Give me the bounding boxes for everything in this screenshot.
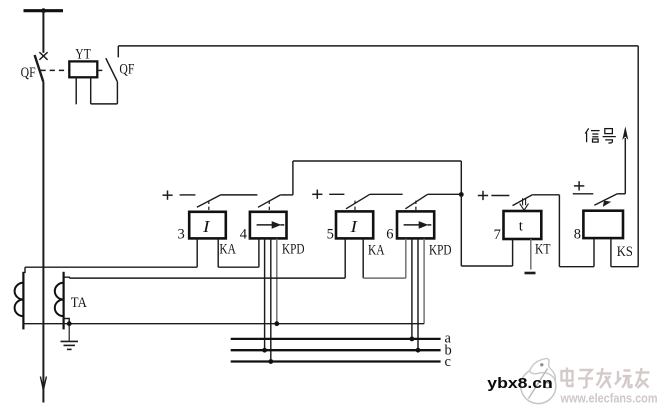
svg-text:YT: YT bbox=[75, 47, 91, 63]
wire: relay4 lead to return line bbox=[276, 239, 278, 324]
junction dot ground node bbox=[67, 321, 72, 326]
svg-text:KPD: KPD bbox=[282, 242, 305, 258]
wire: relay6 lead to return line bbox=[423, 239, 425, 324]
wire: relay4 left lead bbox=[258, 239, 260, 268]
wire: TA line2 jog to coil2 bbox=[64, 276, 70, 279]
svg-text:KA: KA bbox=[368, 243, 385, 259]
junction dot b-phase relay6 bbox=[416, 348, 421, 353]
svg-text:KA: KA bbox=[219, 242, 236, 258]
svg-text:TA: TA bbox=[71, 295, 87, 311]
label KA (relay 3) bbox=[219, 242, 236, 258]
wire: KT feed drop from junction bbox=[460, 195, 462, 267]
ground symbol bbox=[61, 324, 79, 350]
contact KPD4 blade bbox=[258, 195, 280, 207]
trip coil YT box bbox=[69, 61, 97, 77]
contact KS8 blade bbox=[594, 194, 617, 206]
label 3 bbox=[178, 227, 185, 243]
label I in KA5 bbox=[349, 217, 358, 236]
dashed link contact3 to relay 3 bbox=[208, 201, 210, 212]
svg-text:t: t bbox=[519, 219, 524, 235]
current transformer TA coil 2 bar bbox=[62, 272, 64, 330]
contact KPD6 blade bbox=[405, 194, 427, 209]
wire: bus vertical lower segment bbox=[42, 82, 44, 403]
wire: KS8 right lead bbox=[610, 238, 612, 266]
wire: fixed lead of contact KA3 bbox=[180, 194, 196, 196]
wire: KT7 right lead to minus bbox=[530, 239, 532, 270]
junction dot x461 bbox=[459, 192, 464, 197]
svg-text:c: c bbox=[445, 354, 451, 370]
label I in KA3 bbox=[202, 217, 211, 236]
junction dot b-phase relay4 bbox=[262, 348, 267, 353]
label t in KT7 bbox=[519, 219, 524, 235]
svg-text:KT: KT bbox=[535, 241, 551, 257]
breaker X mark on QF bbox=[39, 52, 47, 60]
label 4 bbox=[240, 227, 248, 243]
label 信号 (signal) char 信 bbox=[585, 128, 599, 142]
label 8 bbox=[574, 226, 581, 242]
relay KS8 box bbox=[583, 211, 623, 238]
relay KPD6 box bbox=[397, 211, 434, 238]
wire: coil2 bottom jog to ground node bbox=[64, 319, 70, 324]
wire: fixed lead of contact KT7 bbox=[491, 195, 509, 197]
arrow symbol in KPD4 bbox=[257, 221, 285, 229]
wire: TA return line bbox=[23, 323, 425, 325]
label 6 bbox=[386, 227, 393, 243]
phase line b bbox=[231, 349, 441, 351]
wire: KS8 left lead bbox=[593, 238, 595, 266]
relay KA3 box bbox=[189, 212, 226, 239]
wire: relay4 lead to phase b bbox=[264, 239, 266, 351]
minus terminal under KT7 bbox=[525, 272, 536, 275]
wire: contact KA3 to contact KPD4 bbox=[221, 194, 258, 196]
phase line c bbox=[231, 360, 441, 362]
wire: YT loop bottom bbox=[91, 103, 118, 105]
wire: KT7 left lead bbox=[512, 239, 514, 266]
arrow symbol in KPD6 bbox=[404, 221, 432, 229]
wire: contact KPD6 to junction bbox=[428, 193, 462, 195]
dashed link QF to YT bbox=[41, 69, 69, 71]
svg-text:ybx8.cn: ybx8.cn bbox=[487, 375, 553, 392]
dashed link YT to QF aux contact bbox=[98, 69, 106, 71]
wire: right rail bottom to KS bbox=[611, 266, 638, 268]
wire: contact KPD4 to riser bbox=[280, 194, 293, 196]
wire: U link relay5-relay6 bbox=[363, 277, 406, 279]
wire: KT feed bottom bbox=[461, 265, 512, 267]
wire: relay6 left lead bbox=[405, 239, 407, 279]
plus terminal (contact 8) bbox=[574, 181, 584, 190]
wire: right rail vertical bbox=[637, 46, 639, 267]
elecfans logo ring dot bbox=[545, 383, 550, 388]
breaker QF blade bbox=[35, 55, 44, 82]
wire: fixed lead of contact KA5 bbox=[329, 193, 344, 195]
wire: relay5 left lead bbox=[344, 239, 346, 279]
wire: relay3 right lead bbox=[217, 239, 219, 268]
wire: TA line1 to relay3 bbox=[25, 266, 197, 268]
label 信号 (signal) char 号 bbox=[603, 129, 616, 143]
wire: relay6 lead to phase a bbox=[411, 239, 413, 339]
svg-text:KPD: KPD bbox=[429, 243, 452, 259]
busbar (top bus) bbox=[24, 9, 64, 12]
label QF (aux contact) bbox=[119, 62, 134, 78]
wire: QF aux top terminal bbox=[117, 46, 119, 58]
relay KT7 box bbox=[504, 211, 542, 239]
watermark char 电 bbox=[562, 368, 573, 387]
label b bbox=[445, 343, 452, 359]
label a bbox=[445, 331, 452, 347]
plus terminal (row 1) bbox=[163, 191, 173, 200]
dashed link contact5 to relay 5 bbox=[354, 201, 356, 212]
fixed bar of contact KS8 bbox=[573, 193, 594, 195]
label KA (relay 5) bbox=[368, 243, 385, 259]
time-delay arrow on contact 7 bbox=[520, 198, 529, 210]
current transformer TA coil 1 bar bbox=[22, 272, 24, 330]
label QF (breaker) bbox=[21, 65, 36, 81]
svg-text:4: 4 bbox=[240, 227, 248, 243]
wire: to KS coil left bbox=[559, 266, 594, 268]
svg-text:6: 6 bbox=[386, 227, 393, 243]
wire: top rail bbox=[118, 45, 638, 47]
junction dot on busbar bbox=[41, 8, 46, 13]
label TA bbox=[71, 295, 87, 311]
wire: relay3 left lead bbox=[196, 239, 198, 268]
label 5 bbox=[327, 227, 334, 243]
arrowhead on KS8 blade bbox=[603, 201, 611, 207]
label YT bbox=[75, 47, 91, 63]
contact KA3 blade bbox=[197, 195, 221, 207]
TA coil 2 winding bumps bbox=[55, 283, 64, 316]
wire: relay4 lead to phase c bbox=[270, 239, 272, 362]
QF aux contact blade bbox=[106, 58, 118, 81]
contact KA5 blade bbox=[346, 194, 370, 209]
svg-text:I: I bbox=[349, 217, 358, 236]
label KPD (relay 4) bbox=[282, 242, 305, 258]
wire: U link relay3-relay4 bbox=[218, 266, 259, 268]
dashed link contact6 to relay 6 bbox=[415, 201, 417, 212]
wire: contact KT7 pivot lead bbox=[532, 194, 559, 196]
watermark char 友 bbox=[636, 368, 650, 388]
label KS bbox=[617, 244, 633, 260]
svg-text:3: 3 bbox=[178, 227, 185, 243]
contact KT7 blade (time delay) bbox=[513, 195, 533, 206]
label KT bbox=[535, 241, 551, 257]
elecfans logo stem line bbox=[529, 369, 548, 399]
watermark text www.elecfans.com bbox=[560, 391, 658, 406]
watermark char 烧 bbox=[615, 371, 632, 388]
label KPD (relay 6) bbox=[429, 243, 452, 259]
plus terminal (row 3) bbox=[478, 191, 488, 200]
wire: relay5 right lead bbox=[362, 239, 364, 279]
wire: QF aux bottom lead bbox=[116, 82, 118, 104]
svg-text:QF: QF bbox=[21, 65, 36, 81]
junction dot a-phase relay6 bbox=[410, 337, 415, 342]
arrow on bus bottom bbox=[40, 377, 46, 390]
watermark char 发 bbox=[597, 368, 612, 388]
svg-text:I: I bbox=[202, 217, 211, 236]
label c bbox=[445, 354, 451, 370]
wire: KS8 pivot jog bbox=[617, 193, 625, 195]
wire: riser at x293 bbox=[292, 161, 294, 195]
dashed link contact4 to relay 4 bbox=[268, 201, 270, 212]
elecfans logo leaf bbox=[530, 359, 556, 380]
wire: upper link rail y161 bbox=[293, 160, 461, 162]
junction dot relay4 return bbox=[274, 321, 279, 326]
relay KPD4 box bbox=[250, 212, 287, 239]
wire: relay6 lead to phase b bbox=[417, 239, 419, 351]
wire: TA line2 to relay5 bbox=[69, 277, 345, 279]
svg-text:QF: QF bbox=[119, 62, 134, 78]
elecfans logo circle bbox=[521, 368, 556, 403]
svg-text:www.elecfans.com: www.elecfans.com bbox=[560, 391, 658, 406]
wire: contact KA5 to contact KPD6 bbox=[370, 193, 403, 195]
wire: signal riser bbox=[624, 138, 626, 194]
signal arrow head bbox=[622, 126, 628, 140]
elecfans logo leaf dot bbox=[540, 363, 543, 366]
watermark char 子 bbox=[578, 370, 593, 388]
label 7 bbox=[494, 227, 501, 243]
svg-text:7: 7 bbox=[494, 227, 501, 243]
svg-text:5: 5 bbox=[327, 227, 334, 243]
wire: drop at x461 bbox=[460, 161, 462, 195]
svg-text:8: 8 bbox=[574, 226, 581, 242]
wire: bus vertical upper segment bbox=[42, 11, 44, 53]
svg-text:KS: KS bbox=[617, 244, 633, 260]
wire: KT contact drop bbox=[558, 195, 560, 267]
watermark text ybx8.cn bbox=[487, 375, 553, 392]
plus terminal (row 2) bbox=[312, 190, 322, 199]
relay KA5 box bbox=[336, 211, 373, 238]
phase line a bbox=[231, 338, 441, 340]
wire: TA line1 jog to coil1 bbox=[24, 267, 26, 273]
junction dot c-phase relay4 bbox=[268, 359, 273, 364]
wire: YT left bottom lead bbox=[75, 77, 77, 104]
wire: YT right bottom lead bbox=[90, 77, 92, 104]
TA coil 1 winding bumps bbox=[15, 283, 24, 316]
